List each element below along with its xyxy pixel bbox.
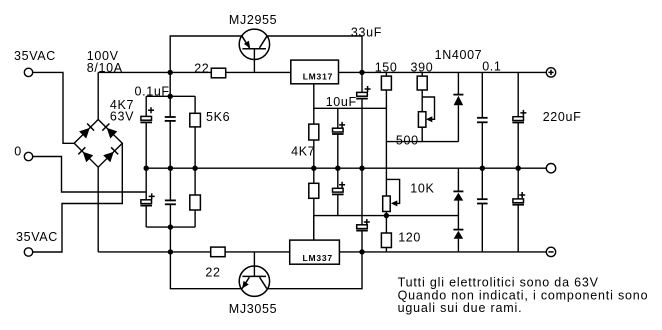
capacitor 4K7uF/63V bank1 electrolytic [110, 96, 154, 168]
resistor 5K6 bank1 [190, 96, 230, 168]
capacitor 10uF (LM317 adj) [326, 95, 357, 168]
bridge rectifier 100V 8/10A [74, 49, 123, 167]
regulator LM317 [291, 60, 339, 84]
node bank1 bus junction [168, 94, 173, 99]
svg-text:4K7: 4K7 [291, 145, 315, 159]
capacitor 0.1 output bottom [477, 168, 488, 252]
node LM337 output junction [359, 249, 364, 254]
svg-text:5K6: 5K6 [206, 110, 230, 124]
svg-text:35VAC: 35VAC [14, 49, 56, 63]
terminal 0 (center tap) [14, 145, 32, 161]
diode 1N4007 bottom a [453, 168, 463, 215]
svg-text:150: 150 [375, 61, 398, 75]
capacitor 220uF top [512, 72, 581, 168]
svg-text:0.1: 0.1 [482, 60, 501, 74]
svg-text:1N4007: 1N4007 [435, 48, 483, 62]
resistor 150 [375, 61, 398, 196]
wire ADJ1 to diode [386, 141, 458, 143]
svg-text:uguali sui due rami.: uguali sui due rami. [398, 301, 523, 315]
transistor MJ3055 [229, 266, 277, 316]
terminal 35VAC top [14, 49, 56, 77]
svg-text:MJ2955: MJ2955 [229, 13, 277, 27]
diode 1N4007 top [435, 48, 483, 142]
capacitor 0.1uF bank1 ceramic [135, 84, 176, 168]
bridge diode bottom-left [78, 147, 93, 162]
svg-text:35VAC: 35VAC [16, 230, 58, 244]
regulator LM337 [290, 240, 340, 264]
wire MJ3055 base [253, 252, 255, 277]
resistor 4K7 bank2 (LM337 adj) [309, 168, 319, 240]
terminal output common [546, 164, 555, 173]
capacitor 33uF output [351, 25, 382, 168]
resistor 390 [411, 61, 434, 112]
node bank2 bus junction [168, 224, 173, 229]
wire bank1 top bus [146, 72, 195, 96]
capacitor bank2 electrolytic [140, 168, 154, 227]
note text [398, 276, 649, 316]
node raw- junction [168, 249, 173, 254]
resistor 22 bottom [205, 247, 225, 280]
svg-text:LM317: LM317 [303, 72, 333, 82]
svg-text:63V: 63V [110, 110, 134, 124]
svg-text:500: 500 [396, 133, 419, 147]
resistor 22 top [194, 62, 226, 78]
svg-text:10uF: 10uF [326, 95, 357, 109]
node LM317 output junction [359, 70, 364, 75]
diode 1N4007 bottom b [453, 216, 463, 252]
node ADJ2 junction [384, 213, 389, 218]
node mid rail junctions right [480, 166, 521, 171]
wire raw negative rail [98, 251, 546, 253]
svg-text:0.1uF: 0.1uF [135, 84, 170, 98]
trimmer 500 [396, 97, 435, 147]
capacitor bank2 ceramic [165, 168, 176, 227]
svg-text:390: 390 [411, 61, 434, 75]
svg-text:10K: 10K [410, 181, 434, 195]
bridge diode bottom-right [103, 147, 118, 162]
capacitor 0.1 output top [477, 60, 502, 169]
trimmer 10K [383, 179, 435, 233]
wire bridge minus riser [97, 167, 99, 252]
svg-text:22: 22 [205, 266, 220, 280]
svg-text:0: 0 [14, 145, 22, 159]
svg-text:MJ3055: MJ3055 [229, 302, 277, 316]
node mid rail junctions bank1 [144, 166, 198, 171]
wire 0 terminal to mid rail (common) [33, 157, 146, 193]
bridge diode top-left [79, 124, 94, 139]
wire MJ2955 base [253, 49, 255, 73]
capacitor 10uF (LM337 adj) [332, 168, 345, 215]
transistor MJ2955 [229, 13, 277, 60]
node mid rail junctions LM317 [311, 166, 365, 171]
svg-text:120: 120 [398, 231, 421, 245]
capacitor 33uF output bottom [356, 168, 370, 252]
terminal output negative [546, 247, 555, 256]
resistor 5K6 bank2 [190, 168, 201, 227]
wire bank2 bottom bus [146, 227, 195, 252]
wire MJ3055 emitter-collector bottom loop [170, 252, 362, 289]
wire LM317 ADJ line [314, 84, 387, 109]
terminal output positive [546, 68, 555, 77]
terminal 35VAC bottom [16, 230, 58, 256]
wire MJ2955 emitter-collector top loop [170, 36, 362, 72]
svg-text:220uF: 220uF [543, 110, 582, 124]
node raw+ junction [168, 70, 173, 75]
wire 35VAC top to bridge left corner [33, 72, 75, 143]
svg-text:LM337: LM337 [303, 253, 333, 263]
resistor 120 [381, 231, 421, 252]
capacitor 220uF bottom [512, 168, 525, 252]
wire 35VAC bottom to bridge right corner [33, 143, 123, 252]
wire LM337 ADJ line [314, 216, 459, 241]
wire bridge plus riser [97, 72, 99, 119]
bridge diode top-right [102, 124, 117, 139]
wire raw positive rail [98, 71, 546, 73]
resistor 4K7 (LM317 adj) [291, 108, 319, 168]
svg-text:22: 22 [194, 62, 209, 76]
wire mid rail (0V common) [146, 167, 546, 169]
svg-text:33uF: 33uF [351, 25, 382, 39]
